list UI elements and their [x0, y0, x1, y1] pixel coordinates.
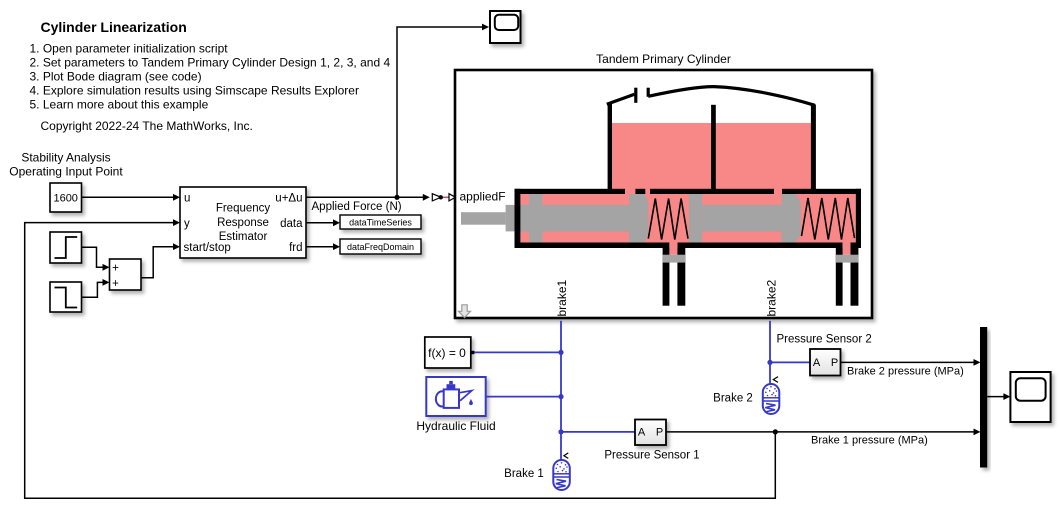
- mask icon cylinder interior fluid: [520, 194, 855, 243]
- svg-text:Cylinder Linearization: Cylinder Linearization: [41, 19, 187, 35]
- wire step up to sum input 1: [82, 247, 110, 270]
- mask icon outlet 2 channel: [843, 243, 851, 255]
- svg-text:Brake 1 pressure (MPa): Brake 1 pressure (MPa): [811, 435, 928, 447]
- svg-text:Hydraulic Fluid: Hydraulic Fluid: [416, 419, 495, 433]
- svg-text:f(x) = 0: f(x) = 0: [428, 346, 466, 360]
- to-workspace block dataFreqDomain: [340, 239, 421, 254]
- svg-text:brake1: brake1: [555, 279, 569, 316]
- mask icon piston rod external thick: [506, 205, 529, 232]
- svg-text:Pressure Sensor 1: Pressure Sensor 1: [604, 450, 699, 462]
- svg-text:A: A: [813, 357, 821, 369]
- svg-text:start/stop: start/stop: [184, 242, 231, 254]
- svg-text:Pressure Sensor 2: Pressure Sensor 2: [777, 333, 872, 345]
- svg-text:Response: Response: [217, 217, 269, 229]
- mask icon reservoir fluid: [612, 123, 811, 194]
- svg-text:y: y: [184, 218, 190, 230]
- wire physical brake1 line: [558, 321, 563, 460]
- subsystem Tandem Primary Cylinder: [455, 70, 872, 318]
- accumulator block Brake 2: [763, 377, 780, 414]
- wire pressure sensor 2 output to mux: [841, 359, 981, 366]
- mask icon outlet 1 walls: [663, 248, 670, 306]
- mask icon piston rod middle: [543, 205, 631, 232]
- svg-text:u+Δu: u+Δu: [275, 192, 302, 204]
- wire feedback brake 1 pressure to y input: [25, 219, 776, 498]
- svg-text:1. Open parameter initializati: 1. Open parameter initialization script2…: [30, 42, 391, 112]
- mask icon reservoir lid: [607, 87, 815, 106]
- wire hydraulic fluid to brake1 line: [486, 396, 561, 398]
- scope block top: [490, 11, 521, 43]
- junction solver line: [558, 350, 563, 355]
- mask icon spring 1: [648, 199, 688, 240]
- junction pressure sensor 1 line: [558, 429, 563, 434]
- mask icon cylinder right wall: [856, 189, 861, 248]
- sum block Add: [110, 259, 142, 290]
- mask icon cylinder bottom border segments: [515, 243, 862, 249]
- wire solver to brake1 line: [474, 351, 561, 353]
- junction pressure sensor 2 line: [767, 360, 772, 365]
- mask icon piston head 1: [629, 194, 648, 243]
- mask icon reservoir divider: [711, 105, 716, 194]
- mask icon spring 2: [802, 198, 855, 240]
- svg-text:dataFreqDomain: dataFreqDomain: [347, 242, 414, 252]
- mask icon outlet 2 gray fitting: [836, 255, 859, 263]
- mask icon cylinder left wall: [515, 189, 521, 248]
- svg-text:Applied Force (N): Applied Force (N): [312, 201, 402, 213]
- junction hydraulic fluid line: [558, 394, 563, 399]
- block Frequency Response Estimator: [180, 187, 306, 258]
- constant block 1600: [50, 183, 82, 212]
- junction feedback tap: [773, 429, 778, 434]
- svg-text:data: data: [280, 218, 303, 230]
- svg-text:+: +: [112, 278, 119, 290]
- wire pressure sensor 1 output to mux: [666, 429, 981, 436]
- scope block right: [1010, 372, 1050, 422]
- svg-text:Brake 2: Brake 2: [713, 393, 753, 405]
- mask icon outlet 1 channel: [669, 243, 677, 255]
- wire frd output to dataFreqDomain: [306, 243, 340, 250]
- wire u+du output to subsystem appliedF: [306, 194, 430, 201]
- wire mux to scope: [987, 393, 1010, 400]
- solver configuration block f(x)=0: [425, 337, 475, 368]
- svg-text:Stability AnalysisOperating In: Stability AnalysisOperating Input Point: [9, 151, 123, 179]
- step block Step Up: [50, 232, 82, 263]
- svg-text:P: P: [831, 357, 838, 369]
- mask icon piston plate 1: [529, 194, 543, 243]
- wire step down to sum input 2: [82, 279, 110, 297]
- linearization input port marker at appliedF: [432, 194, 455, 201]
- wire physical brake2 line: [767, 321, 772, 384]
- wire brake1 line to pressure sensor 1: [561, 431, 635, 433]
- svg-text:P: P: [656, 427, 663, 439]
- mask icon piston rod external thin: [461, 212, 506, 225]
- svg-text:+: +: [112, 262, 119, 274]
- svg-text:appliedF: appliedF: [460, 190, 506, 204]
- subsystem look-under-mask arrow: [458, 305, 470, 318]
- svg-text:frd: frd: [289, 242, 302, 254]
- svg-text:A: A: [638, 427, 646, 439]
- mask icon outlet 2 walls: [836, 248, 843, 306]
- wire data output to dataTimeSeries: [306, 219, 340, 226]
- svg-text:Brake 2 pressure (MPa): Brake 2 pressure (MPa): [847, 366, 964, 378]
- wire branch to scope: [397, 24, 489, 198]
- block Hydraulic Fluid: [426, 377, 485, 416]
- svg-text:Frequency: Frequency: [216, 202, 271, 214]
- svg-text:Brake 1: Brake 1: [504, 468, 544, 480]
- to-workspace block dataTimeSeries: [340, 215, 421, 229]
- wire sum to start/stop input: [141, 243, 180, 277]
- wire brake2 line to pressure sensor 2: [770, 361, 810, 363]
- mask icon cylinder top border segments: [515, 189, 862, 194]
- svg-text:Tandem Primary Cylinder: Tandem Primary Cylinder: [596, 52, 731, 66]
- mask icon reservoir right wall: [811, 105, 816, 195]
- mask icon reservoir left wall: [608, 103, 612, 195]
- step block Step Down: [50, 282, 82, 312]
- mask icon piston head 2: [782, 194, 801, 243]
- sensor block Pressure Sensor 2: [810, 349, 841, 376]
- mask icon piston plate 2: [689, 194, 702, 243]
- svg-text:u: u: [184, 192, 190, 204]
- svg-text:Copyright 2022-24 The MathWork: Copyright 2022-24 The MathWorks, Inc.: [41, 119, 253, 133]
- mask icon outlet 1 gray fitting: [663, 255, 686, 263]
- svg-text:brake2: brake2: [765, 279, 779, 316]
- svg-text:dataTimeSeries: dataTimeSeries: [349, 217, 412, 227]
- wire constant 1600 to u input: [82, 194, 181, 201]
- accumulator block Brake 1: [553, 453, 570, 490]
- mux block: [980, 327, 987, 468]
- sensor block Pressure Sensor 1: [635, 420, 666, 446]
- svg-text:1600: 1600: [53, 193, 77, 205]
- mask icon piston rod 2: [702, 205, 782, 232]
